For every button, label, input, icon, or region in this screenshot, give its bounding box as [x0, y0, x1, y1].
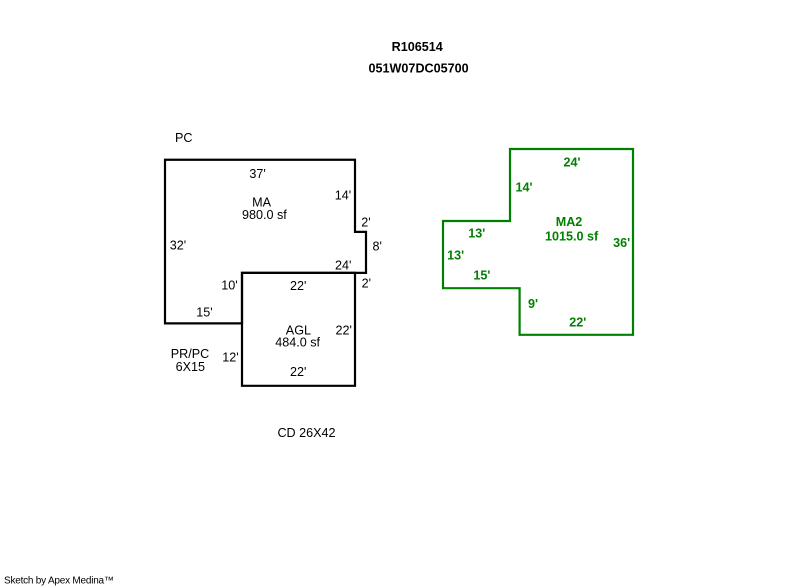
svg-text:1015.0 sf: 1015.0 sf [545, 230, 599, 244]
svg-text:10': 10' [221, 279, 237, 293]
svg-text:12': 12' [222, 351, 238, 365]
svg-text:PR/PC: PR/PC [171, 347, 210, 361]
svg-text:14': 14' [335, 189, 351, 203]
svg-text:2': 2' [362, 276, 371, 290]
svg-text:22': 22' [290, 279, 306, 293]
svg-text:2': 2' [361, 215, 370, 229]
svg-text:051W07DC05700: 051W07DC05700 [369, 61, 469, 75]
svg-text:13': 13' [468, 227, 485, 241]
svg-text:R106514: R106514 [392, 40, 443, 54]
svg-text:CD 26X42: CD 26X42 [277, 426, 335, 440]
svg-text:37': 37' [249, 167, 265, 181]
svg-text:15': 15' [196, 306, 212, 320]
svg-text:22': 22' [290, 365, 306, 379]
svg-text:Sketch by Apex Medina™: Sketch by Apex Medina™ [4, 575, 114, 586]
svg-text:980.0 sf: 980.0 sf [242, 208, 287, 222]
svg-text:22': 22' [569, 315, 586, 329]
svg-text:24': 24' [563, 156, 580, 170]
svg-text:36': 36' [613, 236, 630, 250]
svg-text:24': 24' [335, 258, 351, 272]
svg-text:22': 22' [336, 324, 352, 338]
svg-text:14': 14' [515, 180, 532, 194]
svg-text:8': 8' [372, 240, 381, 254]
svg-text:PC: PC [175, 131, 193, 145]
svg-text:13': 13' [447, 249, 464, 263]
svg-text:MA2: MA2 [556, 215, 583, 229]
svg-text:6X15: 6X15 [176, 360, 205, 374]
svg-text:15': 15' [473, 268, 490, 282]
svg-text:9': 9' [528, 297, 538, 311]
svg-text:32': 32' [170, 238, 186, 252]
svg-text:484.0 sf: 484.0 sf [275, 336, 320, 350]
